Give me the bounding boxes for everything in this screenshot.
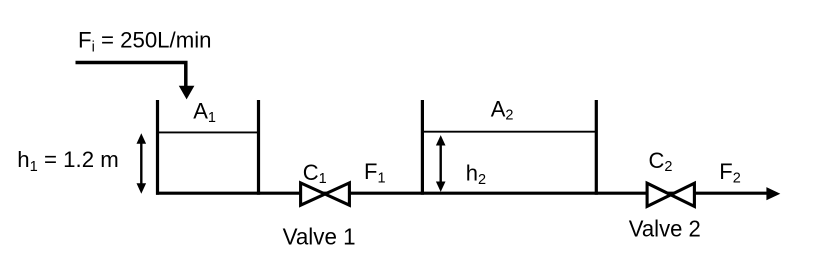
h1 dimension double arrow — [140, 141, 142, 186]
tank 1 left wall — [156, 100, 159, 195]
svg-text:Fi = 250L/min: Fi = 250L/min — [78, 28, 212, 56]
valve 2 (bowtie) — [647, 183, 694, 206]
outlet F2 arrowhead — [766, 187, 780, 200]
h2 dimension double arrow — [440, 143, 442, 184]
tank 2 right wall — [595, 100, 598, 195]
wire inlet pipe (horizontal then down into tank 1) — [76, 63, 186, 87]
svg-text:Valve 1: Valve 1 — [283, 224, 356, 250]
wire bottom pipe from tank 1 to outlet — [156, 192, 768, 195]
inlet arrowhead into tank 1 — [179, 86, 195, 100]
tank 1 water level line — [157, 131, 259, 133]
tank 2 water level line — [422, 131, 598, 133]
svg-text:Valve 2: Valve 2 — [629, 216, 701, 242]
valve 1 (bowtie) — [301, 183, 350, 205]
tank 2 left wall — [421, 100, 424, 195]
tank 1 right wall — [257, 100, 260, 195]
